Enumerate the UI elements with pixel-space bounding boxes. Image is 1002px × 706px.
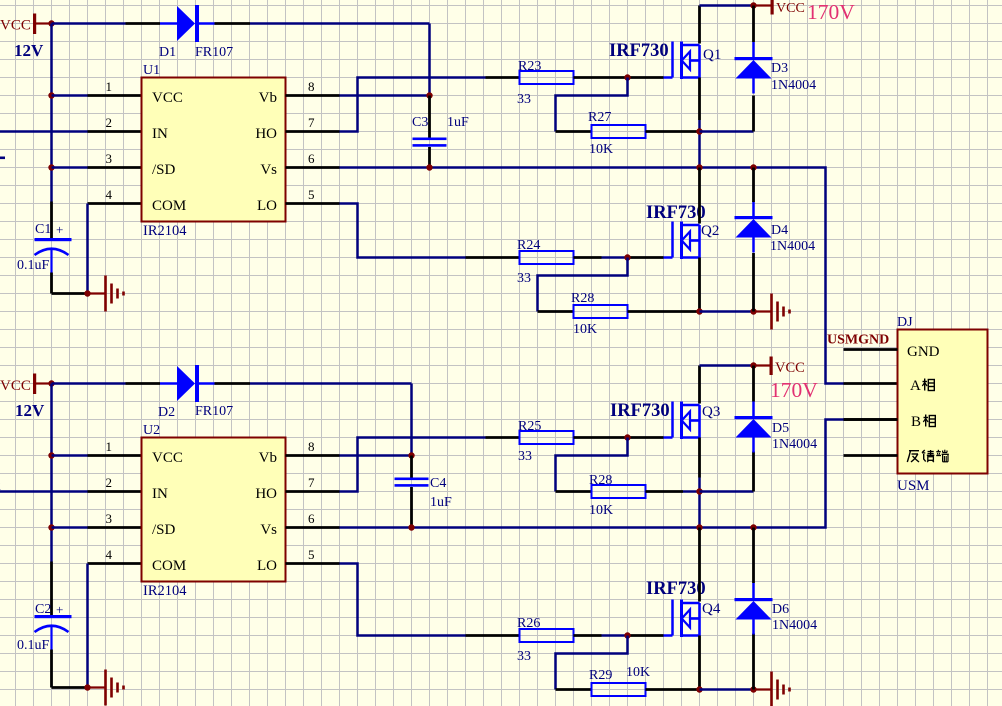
svg-text:8: 8: [308, 439, 315, 454]
svg-text:IRF730: IRF730: [646, 579, 706, 599]
power port USMGND: [827, 333, 889, 348]
svg-text:IR2104: IR2104: [143, 583, 187, 599]
svg-text:3: 3: [106, 511, 113, 526]
junction (51.5,383.5): [48, 380, 54, 386]
svg-text:LO: LO: [257, 198, 277, 214]
wire C1 bottom: [52, 292, 88, 295]
wire D3 cathode to VCC: [752, 6, 755, 43]
wire D1 cathode to C3 top: [215, 24, 430, 96]
pin number 1 (U2): [106, 439, 113, 454]
svg-text:LO: LO: [257, 558, 277, 574]
wire Q1 drain to VCC rail: [700, 6, 754, 44]
svg-text:/SD: /SD: [152, 162, 176, 178]
svg-text:IN: IN: [152, 126, 168, 142]
svg-text:7: 7: [308, 115, 315, 130]
wire to lower-right ground: [700, 688, 754, 691]
pin number 8 (U2): [308, 439, 315, 454]
wire Q3 drain to VCC rail: [700, 366, 754, 404]
svg-text:FR107: FR107: [195, 404, 233, 419]
svg-text:DJ: DJ: [897, 315, 913, 330]
svg-text:6: 6: [308, 511, 315, 526]
connector DJ USM: [897, 315, 988, 494]
wire pin5 LO to R24: [286, 204, 520, 258]
wire R28b loop: [556, 438, 628, 492]
wire pin7 HO to R25: [286, 438, 520, 492]
capacitor C4 1uF: [395, 456, 453, 528]
pin number 6 (U2): [308, 511, 315, 526]
ground (lower left): [88, 670, 124, 706]
svg-text:10K: 10K: [589, 503, 613, 518]
wire pin6 Vs net to A-phase: [286, 168, 898, 384]
wire pin7 HO to R23: [286, 78, 520, 132]
svg-text:R26: R26: [517, 616, 540, 631]
pin number 8: [308, 79, 315, 94]
svg-text:33: 33: [518, 449, 532, 464]
junction (627.5,77.5): [624, 74, 630, 80]
wire R27 to Q1 source node: [646, 130, 700, 133]
junction (51.5,455.5): [48, 452, 54, 458]
svg-text:1uF: 1uF: [447, 115, 469, 130]
wire Q3 source down: [698, 438, 701, 528]
junction (699.5,311.5): [696, 308, 702, 314]
svg-text:R29: R29: [589, 668, 612, 683]
svg-text:FR107: FR107: [195, 45, 233, 60]
wire D6 anode: [752, 634, 755, 690]
resistor R27 10K: [588, 110, 646, 157]
junction (51.5,167.5): [48, 164, 54, 170]
svg-text:U1: U1: [143, 63, 160, 78]
svg-text:IRF730: IRF730: [609, 41, 669, 61]
junction (411.5,455.5): [408, 452, 414, 458]
junction (699.5,167.5): [696, 164, 702, 170]
svg-text:12V: 12V: [14, 41, 44, 60]
power VCC 12V (upper): [0, 14, 52, 61]
svg-text:1N4004: 1N4004: [772, 618, 817, 633]
capacitor C1 0.1uF: [17, 202, 72, 294]
svg-text:USM: USM: [897, 478, 930, 494]
wire VCC rail to D2: [52, 382, 161, 385]
svg-text:VCC: VCC: [0, 18, 31, 34]
wire R28 to Q2 source node: [628, 310, 700, 313]
svg-text:1N4004: 1N4004: [771, 78, 816, 93]
power VCC 170V (upper): [754, 0, 856, 24]
junction (699.5,131.5): [696, 128, 702, 134]
junction (753.5,167.5): [750, 164, 756, 170]
junction (51.5,95.5): [48, 92, 54, 98]
junction (753.5,527.5): [750, 524, 756, 530]
junction (429.5,95.5): [426, 92, 432, 98]
svg-text:R27: R27: [588, 110, 611, 125]
ground (lower right): [754, 672, 790, 706]
capacitor C2 0.1uF: [17, 562, 72, 688]
ground (upper left): [88, 276, 124, 312]
wire R26 to Q4 gate: [574, 634, 664, 637]
pin GND of DJ: [844, 344, 940, 360]
svg-text:COM: COM: [152, 558, 186, 574]
diode D2 FR107: [158, 365, 233, 420]
svg-text:GND: GND: [907, 344, 940, 360]
svg-text:D6: D6: [772, 602, 789, 617]
svg-text:HO: HO: [255, 126, 277, 142]
svg-text:D3: D3: [771, 61, 788, 76]
capacitor C3 1uF: [412, 96, 469, 168]
svg-text:12V: 12V: [15, 401, 45, 420]
wire R29 to Q4 source node: [646, 688, 700, 691]
wire VCC vertical bus x=51.5: [50, 24, 53, 202]
junction (87.5,293.5): [84, 290, 90, 296]
wire pin1 U2: [52, 454, 142, 457]
junction (753.5,689.5): [750, 686, 756, 692]
pin number 7 (U2): [308, 475, 315, 490]
svg-text:/SD: /SD: [152, 522, 176, 538]
junction (429.5,167.5): [426, 164, 432, 170]
svg-text:IRF730: IRF730: [610, 401, 670, 421]
resistor R25 33: [518, 419, 574, 464]
svg-text:VCC: VCC: [152, 90, 183, 106]
wire pin8 Vb to C3: [286, 94, 430, 97]
svg-text:D2: D2: [158, 405, 175, 420]
svg-text:U2: U2: [143, 423, 160, 438]
svg-text:3: 3: [106, 151, 113, 166]
diode D6 1N4004: [735, 583, 818, 635]
svg-text:4: 4: [106, 187, 113, 202]
wire VCC rail to D1: [52, 22, 161, 25]
svg-text:VCC: VCC: [152, 450, 183, 466]
wire R25 to Q3 gate: [574, 436, 664, 439]
net stub left edge: [0, 157, 5, 160]
junction (753.5,5.5): [750, 2, 756, 8]
svg-text:6: 6: [308, 151, 315, 166]
pin number 4: [106, 187, 113, 202]
svg-text:D1: D1: [159, 45, 176, 60]
svg-text:USMGND: USMGND: [827, 333, 889, 348]
svg-text:0.1uF: 0.1uF: [17, 638, 50, 653]
resistor R23 33: [517, 59, 574, 107]
wire pin2 U1 (IN): [0, 130, 142, 133]
svg-text:C1: C1: [35, 222, 51, 237]
svg-text:2: 2: [106, 115, 113, 130]
pin A-phase of DJ (A相): [910, 378, 934, 394]
op-amp U2 IR2104: [142, 423, 286, 599]
resistor R28 10K (upper): [571, 291, 628, 337]
transistor Q4 IRF730: [646, 579, 721, 637]
svg-text:D4: D4: [771, 223, 788, 238]
svg-text:7: 7: [308, 475, 315, 490]
wire Q2 drain up to Vs: [698, 168, 701, 224]
resistor R26 33: [517, 616, 574, 664]
pin number 4 (U2): [106, 547, 113, 562]
svg-text:C2: C2: [35, 602, 51, 617]
svg-text:R25: R25: [518, 419, 541, 434]
wire R24 to Q2 gate: [574, 256, 664, 259]
wire D2 cathode to C4 top: [215, 384, 412, 456]
junction (753.5,311.5): [750, 308, 756, 314]
svg-text:D5: D5: [772, 421, 789, 436]
wire pin2 U2 (IN): [0, 490, 142, 493]
wire C2 bottom: [52, 686, 88, 689]
pin B-phase of DJ (B相): [844, 414, 936, 430]
wire pin4 U1 (COM) to ground: [88, 204, 142, 294]
power VCC 12V (lower): [0, 374, 52, 421]
svg-text:170V: 170V: [807, 0, 855, 24]
wire pin6 Vs net to B-phase: [286, 420, 898, 528]
pin number 2: [106, 115, 113, 130]
resistor R24 33: [517, 238, 574, 286]
wire VCC vertical bus lower x=51.5: [50, 384, 53, 562]
svg-text:VCC: VCC: [776, 1, 805, 16]
wire to lower ground (upper section): [700, 310, 754, 313]
svg-text:0.1uF: 0.1uF: [17, 258, 50, 273]
svg-text:C4: C4: [430, 476, 446, 491]
resistor R29 10K: [589, 665, 650, 696]
wire R28a loop: [538, 258, 628, 312]
wire D4 anode: [752, 253, 755, 312]
wire R27 loop: [556, 78, 628, 132]
junction (411.5,527.5): [408, 524, 414, 530]
pin number 7: [308, 115, 315, 130]
svg-text:A: A: [910, 378, 921, 394]
svg-text:5: 5: [308, 547, 315, 562]
transistor Q3 IRF730: [610, 401, 720, 439]
wire R28 to Q3 source node: [646, 490, 700, 493]
svg-text:Vs: Vs: [260, 162, 277, 178]
wire Q4 source down: [698, 636, 701, 690]
pin number 1: [106, 79, 113, 94]
junction (699.5,491.5): [696, 488, 702, 494]
svg-text:Vs: Vs: [260, 522, 277, 538]
op-amp U1 IR2104: [142, 63, 286, 239]
svg-text:Vb: Vb: [259, 90, 277, 106]
pin number 3 (U2): [106, 511, 113, 526]
junction (51.5,527.5): [48, 524, 54, 530]
junction (627.5,257.5): [624, 254, 630, 260]
wire pin5 LO to R26: [286, 564, 520, 636]
svg-text:4: 4: [106, 547, 113, 562]
svg-text:VCC: VCC: [775, 360, 805, 376]
junction (699.5,527.5): [696, 524, 702, 530]
wire D6 cathode to Vs: [752, 528, 755, 584]
pin number 3: [106, 151, 113, 166]
wire pin3 U2 (/SD): [52, 526, 142, 529]
wire pin1 U1: [52, 94, 142, 97]
junction (87.5,687.5): [84, 684, 90, 690]
svg-text:1N4004: 1N4004: [772, 437, 817, 452]
svg-text:1: 1: [106, 79, 113, 94]
junction (627.5,437.5): [624, 434, 630, 440]
wire D4 cathode to Vs: [752, 168, 755, 203]
svg-text:170V: 170V: [770, 378, 818, 402]
wire pin4 U2 (COM) to ground: [88, 564, 142, 688]
svg-text:Q2: Q2: [701, 223, 719, 239]
wire pin8 Vb to C4: [286, 454, 412, 457]
svg-text:R28: R28: [571, 291, 594, 306]
svg-text:Q4: Q4: [702, 601, 721, 617]
svg-text:33: 33: [517, 271, 531, 286]
wire to D5 anode: [700, 452, 754, 492]
svg-text:B: B: [911, 414, 921, 430]
svg-text:+: +: [56, 602, 63, 617]
svg-text:8: 8: [308, 79, 315, 94]
wire Q4 drain up to Vs: [698, 528, 701, 602]
svg-text:10K: 10K: [589, 142, 613, 157]
junction (51.5,23.5): [48, 20, 54, 26]
wire Q1 source down: [698, 78, 701, 168]
diode D5 1N4004: [735, 401, 818, 453]
pin number 2 (U2): [106, 475, 113, 490]
ground (upper right): [754, 294, 790, 330]
junction (753.5,365.5): [750, 362, 756, 368]
pin number 6: [308, 151, 315, 166]
svg-text:Vb: Vb: [259, 450, 277, 466]
svg-text:1N4004: 1N4004: [770, 239, 815, 254]
svg-text:2: 2: [0, 479, 1, 494]
wire to D3 anode: [700, 96, 754, 132]
net label fragment left edge: [0, 479, 1, 494]
pin feedback of DJ (反馈端): [844, 450, 949, 462]
resistor R28 10K (lower): [589, 473, 646, 518]
svg-text:Q3: Q3: [702, 404, 720, 420]
svg-text:R24: R24: [517, 238, 540, 253]
svg-text:1uF: 1uF: [430, 495, 452, 510]
svg-text:COM: COM: [152, 198, 186, 214]
wire D5 cathode to VCC: [752, 366, 755, 402]
svg-text:C3: C3: [412, 115, 428, 130]
svg-text:+: +: [56, 222, 63, 237]
svg-text:R28: R28: [589, 473, 612, 488]
svg-text:R23: R23: [518, 59, 541, 74]
junction (627.5,635.5): [624, 632, 630, 638]
svg-text:33: 33: [517, 92, 531, 107]
pin number 5: [308, 187, 315, 202]
svg-text:IRF730: IRF730: [646, 203, 706, 223]
wire R29 loop: [556, 636, 628, 690]
svg-text:IR2104: IR2104: [143, 223, 187, 239]
transistor Q2 IRF730: [646, 203, 719, 259]
pin number 5 (U2): [308, 547, 315, 562]
transistor Q1 IRF730: [609, 41, 721, 79]
svg-text:Q1: Q1: [703, 47, 721, 63]
power VCC 170V (lower): [754, 357, 819, 403]
wire Q2 source down: [698, 258, 701, 312]
junction (699.5,689.5): [696, 686, 702, 692]
svg-text:IN: IN: [152, 486, 168, 502]
svg-text:10K: 10K: [626, 665, 650, 680]
svg-text:10K: 10K: [573, 322, 597, 337]
diode D3 1N4004: [735, 42, 817, 94]
wire R23 to Q1 gate: [574, 76, 664, 79]
wire pin3 U1 (/SD): [52, 166, 142, 169]
svg-text:33: 33: [517, 649, 531, 664]
svg-text:5: 5: [308, 187, 315, 202]
svg-text:HO: HO: [255, 486, 277, 502]
diode D1 FR107: [159, 5, 233, 60]
svg-text:VCC: VCC: [0, 378, 31, 394]
svg-text:1: 1: [106, 439, 113, 454]
diode D4 1N4004: [735, 201, 816, 254]
svg-text:2: 2: [106, 475, 113, 490]
